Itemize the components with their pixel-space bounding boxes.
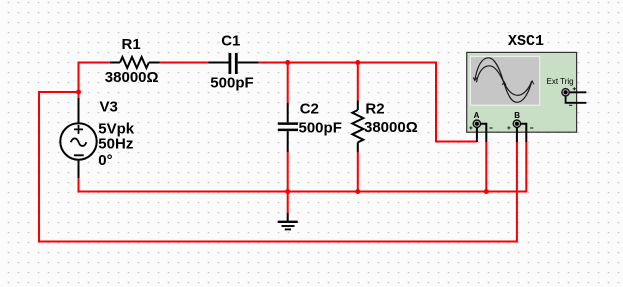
svg-text:50Hz: 50Hz [98, 136, 133, 153]
junction node IN at V3 top [76, 90, 81, 95]
wire R1 right to C1 left [160, 62, 209, 64]
pin A minus stub [481, 124, 487, 142]
label A minus sign [489, 127, 492, 129]
pin B minus stub [521, 124, 527, 142]
wire C2 bottom to ground bus [287, 152, 289, 213]
svg-text:A: A [474, 111, 480, 120]
label B minus sign [530, 127, 533, 129]
wire node IN: junction left to B plus long loop [39, 92, 517, 242]
pin Ext Trig plus stub [570, 91, 587, 93]
svg-text:R2: R2 [365, 101, 384, 118]
AC source V3 [60, 98, 96, 178]
svg-text:R1: R1 [122, 36, 141, 53]
label B plus sign [507, 126, 510, 129]
capacitor C1 [208, 53, 258, 74]
wire node OUT: drop to R2 top [357, 63, 359, 101]
svg-text:0°: 0° [98, 152, 112, 169]
junction ground at R2 [355, 189, 360, 194]
junction ground at A minus [484, 189, 489, 194]
svg-text:500pF: 500pF [299, 120, 342, 137]
svg-text:B: B [514, 111, 520, 120]
svg-text:Ext Trig: Ext Trig [547, 77, 574, 86]
svg-text:C2: C2 [300, 101, 319, 118]
oscilloscope trace waveform A [473, 58, 534, 103]
label Ext Trig minus sign [569, 104, 572, 106]
pin B plus stub [516, 128, 518, 142]
wire node OUT: drop to C2 top [287, 63, 289, 104]
wire node IN: V3 plus up to R1 left [79, 63, 111, 99]
oscilloscope screen [470, 57, 539, 106]
wire ground bus [79, 142, 527, 192]
svg-text:V3: V3 [100, 99, 118, 116]
oscilloscope trace waveform B [476, 66, 531, 96]
pin Ext Trig minus stub [566, 96, 587, 103]
svg-text:38000Ω: 38000Ω [364, 119, 418, 136]
ground [278, 213, 298, 229]
wire scope A minus to ground bus [485, 142, 487, 192]
wire node OUT: C1 right to scope A plus [258, 63, 477, 142]
svg-text:XSC1: XSC1 [508, 33, 544, 50]
pin A plus stub [476, 128, 478, 142]
svg-text:500pF: 500pF [210, 75, 253, 92]
junction node OUT at R2 [355, 60, 360, 65]
wire R2 bottom to ground bus [357, 152, 359, 192]
capacitor C2 [278, 103, 298, 152]
oscilloscope XSC1 body [467, 52, 577, 132]
label A plus sign [469, 126, 472, 129]
junction ground at C2 [285, 189, 290, 194]
pin Ext Trig connector [562, 89, 569, 96]
pin A connector [473, 120, 480, 127]
resistor R1 [110, 57, 160, 68]
svg-text:38000Ω: 38000Ω [105, 69, 159, 86]
resistor R2 [352, 101, 363, 153]
svg-text:C1: C1 [221, 33, 240, 50]
pin B connector [513, 120, 520, 127]
label Ext Trig plus sign [573, 87, 576, 90]
junction node OUT at C2 [285, 60, 290, 65]
